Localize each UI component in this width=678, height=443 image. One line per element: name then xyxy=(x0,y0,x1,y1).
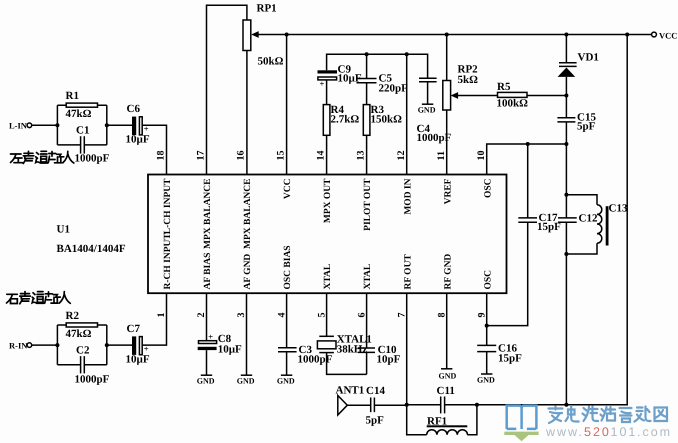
svg-text:MOD IN: MOD IN xyxy=(403,178,413,214)
node rail RP2 xyxy=(445,33,449,37)
inductor RF1 loop xyxy=(407,405,477,435)
wire C8 to ground xyxy=(206,350,208,375)
svg-text:L-IN: L-IN xyxy=(9,121,28,131)
wire pin 15 to rail xyxy=(286,35,288,175)
wire C17 branch upper xyxy=(527,144,529,218)
node rail pin15 xyxy=(285,33,289,37)
tank circuit top node xyxy=(564,193,568,197)
capacitor C7 10uF electrolytic xyxy=(132,336,136,355)
wire tank bottom branch xyxy=(566,243,597,254)
svg-text:OSC: OSC xyxy=(483,270,493,290)
wire crystal loop to pin 6 xyxy=(327,353,367,375)
svg-text:220pF: 220pF xyxy=(379,83,409,95)
svg-text:+: + xyxy=(208,331,213,341)
svg-text:XTAL: XTAL xyxy=(323,264,333,290)
svg-text:5: 5 xyxy=(316,313,327,318)
svg-text:MPX BALANCE: MPX BALANCE xyxy=(243,179,253,249)
svg-text:10: 10 xyxy=(476,151,487,161)
svg-text:5pF: 5pF xyxy=(366,415,385,427)
svg-text:C11: C11 xyxy=(437,385,455,397)
svg-text:C7: C7 xyxy=(127,323,141,335)
wire node to C11 xyxy=(407,404,441,406)
svg-text:OSC BIAS: OSC BIAS xyxy=(283,245,293,289)
RP2 wiper arrow xyxy=(451,92,459,99)
svg-text:6: 6 xyxy=(356,313,367,318)
wire C6 to pin 18 xyxy=(142,125,166,174)
node L out junction xyxy=(105,123,109,127)
wire antenna to C14 xyxy=(347,404,370,406)
node L-IN junction xyxy=(55,123,59,127)
svg-text:520: 520 xyxy=(584,425,611,439)
wire C11 to right node xyxy=(445,404,477,406)
inductor C13 coil xyxy=(597,205,602,243)
node bottom rail tank column xyxy=(564,403,568,407)
svg-text:GND: GND xyxy=(197,377,215,386)
capacitor C4 xyxy=(419,78,437,82)
svg-text:AF BIAS: AF BIAS xyxy=(203,253,213,290)
node rail C5 xyxy=(365,52,369,56)
svg-text:RF GND: RF GND xyxy=(443,254,453,290)
wire C10 to loop xyxy=(366,352,368,374)
wire pin 4 to C3 xyxy=(286,293,288,348)
inductor C13 core xyxy=(606,206,609,245)
wire C12 leads xyxy=(565,195,567,254)
wire L input loop xyxy=(57,105,106,145)
capacitor C15 xyxy=(557,118,575,122)
svg-text:47kΩ: 47kΩ xyxy=(66,108,92,120)
svg-text:2.7kΩ: 2.7kΩ xyxy=(331,114,360,126)
svg-text:15pF: 15pF xyxy=(498,353,522,365)
capacitor C1 xyxy=(81,136,85,153)
capacitor C9 10uF electrolytic xyxy=(318,70,338,73)
node rail pin12 xyxy=(405,52,409,56)
wire node to C7 xyxy=(107,344,132,346)
svg-text:100kΩ: 100kΩ xyxy=(497,98,529,110)
node osc line C17 xyxy=(526,142,530,146)
svg-text:GND: GND xyxy=(439,372,457,381)
VCC top rail xyxy=(257,34,652,36)
svg-text:150kΩ: 150kΩ xyxy=(371,114,403,126)
svg-text:C13: C13 xyxy=(609,203,628,215)
svg-text:3: 3 xyxy=(236,313,247,318)
svg-text:GND: GND xyxy=(418,106,436,115)
node pin 9 junction xyxy=(485,324,489,328)
capacitor C6 10uF electrolytic xyxy=(132,117,136,136)
resistor R4 xyxy=(323,105,330,136)
RP1 wiper arrow xyxy=(251,31,259,38)
svg-text:10pF: 10pF xyxy=(377,354,401,366)
wire C4 to ground xyxy=(427,82,429,105)
svg-text:1000pF: 1000pF xyxy=(298,354,333,366)
svg-text:VREF: VREF xyxy=(443,178,453,204)
capacitor C17 xyxy=(518,218,537,222)
wire C15 down to tank xyxy=(565,122,567,195)
svg-text:C14: C14 xyxy=(366,385,385,397)
wire pin 2 to C8 xyxy=(206,293,208,341)
svg-text:C6: C6 xyxy=(127,103,141,115)
right edge wire VCC to bottom xyxy=(625,33,629,37)
svg-text:1: 1 xyxy=(156,313,167,318)
wire C5 to R3 xyxy=(366,83,368,105)
wire pin 10 to osc net xyxy=(487,144,567,175)
wire tank top branch xyxy=(566,195,597,205)
capacitor C16 xyxy=(477,345,496,351)
右声道输入 caption (right channel input) xyxy=(7,292,71,304)
svg-text:15: 15 xyxy=(276,151,287,161)
IC U1 BA1404 body xyxy=(148,175,507,294)
watermark text 家电维修资料网 xyxy=(549,406,668,423)
wire RP2 bottom to pin 11 xyxy=(446,110,448,175)
capacitor C12 xyxy=(558,218,577,222)
ground pin 4 xyxy=(281,374,292,376)
resistor R5 xyxy=(498,92,528,97)
svg-text:GND: GND xyxy=(477,376,495,385)
svg-text:5pF: 5pF xyxy=(577,121,596,133)
antenna ANT1 xyxy=(338,396,348,416)
svg-text:+: + xyxy=(320,79,325,89)
wire RP1 bottom to pin 16 xyxy=(246,51,248,175)
svg-text:PILOT OUT: PILOT OUT xyxy=(363,178,373,231)
svg-text:VCC: VCC xyxy=(283,178,293,199)
watermark book base xyxy=(504,432,538,442)
svg-text:17: 17 xyxy=(196,151,207,161)
svg-text:www.: www. xyxy=(545,425,584,439)
inductor RF1 coil xyxy=(427,430,468,435)
varicap diode VD1 xyxy=(565,35,567,63)
resistor R3 xyxy=(363,105,370,136)
svg-text:11: 11 xyxy=(436,151,447,160)
wire pin 3 to ground xyxy=(246,293,248,375)
svg-text:5kΩ: 5kΩ xyxy=(458,74,479,86)
svg-text:R1: R1 xyxy=(66,90,79,102)
svg-text:MPX OUT: MPX OUT xyxy=(323,178,333,223)
node R out junction xyxy=(105,343,109,347)
resistor R1 xyxy=(66,103,97,107)
node rail VD1 xyxy=(564,33,568,37)
wire C9 to R4 xyxy=(326,80,328,105)
wire pin 7 to RF node xyxy=(406,293,408,405)
svg-text:16: 16 xyxy=(236,151,247,161)
wire RP2 wiper to R5 xyxy=(457,95,498,97)
wire pin 8 to ground xyxy=(446,293,448,369)
svg-text:R2: R2 xyxy=(66,310,80,322)
svg-text:ANT1: ANT1 xyxy=(336,385,365,397)
wire pin 17 up and over to RP1 top xyxy=(207,5,247,174)
watermark url www.520101.com xyxy=(545,425,672,439)
ground pin 2 xyxy=(201,374,212,376)
svg-text:VCC: VCC xyxy=(659,31,677,41)
wire node to C6 xyxy=(107,124,132,126)
wire C17 branch lower to pin 9 xyxy=(487,222,528,325)
ground C16 xyxy=(481,373,492,375)
L-IN terminal xyxy=(27,123,32,128)
ground pin 8 xyxy=(441,368,452,370)
svg-text:U1: U1 xyxy=(57,224,70,236)
svg-text:12: 12 xyxy=(396,151,407,161)
wire L-IN to node xyxy=(32,124,58,126)
wire pin 12 to rail xyxy=(406,54,408,174)
wire rail to RP2 xyxy=(446,35,448,81)
wire C3 to ground xyxy=(286,352,288,376)
svg-text:R-IN: R-IN xyxy=(9,341,28,351)
svg-text:10µF: 10µF xyxy=(126,134,150,146)
svg-text:R-CH INPUT: R-CH INPUT xyxy=(163,233,173,290)
VCC terminal xyxy=(652,32,657,37)
capacitor C10 xyxy=(358,348,375,352)
ground C4 xyxy=(422,103,433,105)
svg-text:MPX BALANCE: MPX BALANCE xyxy=(203,179,213,249)
svg-text:C2: C2 xyxy=(76,344,90,356)
wire tank to bottom rail xyxy=(565,254,567,405)
svg-text:R5: R5 xyxy=(497,81,511,93)
svg-text:XTAL: XTAL xyxy=(363,264,373,290)
svg-text:C12: C12 xyxy=(579,213,598,225)
node tank bottom xyxy=(564,252,568,256)
wire C16 to ground xyxy=(486,352,488,374)
node VD1 R5 junction xyxy=(564,94,568,98)
svg-text:2: 2 xyxy=(196,313,207,318)
capacitor C3 xyxy=(278,348,297,352)
wire R-IN to node xyxy=(32,344,58,346)
watermark book icon xyxy=(507,406,537,429)
capacitor C5 xyxy=(357,79,377,83)
svg-text:10µF: 10µF xyxy=(218,344,242,356)
node C15 osc line junction xyxy=(564,142,568,146)
svg-text:C1: C1 xyxy=(76,125,89,137)
左声道输入 caption (left channel input) xyxy=(11,151,74,163)
potentiometer RP2 body xyxy=(443,81,451,111)
wire R4 to pin 14 xyxy=(326,135,328,174)
svg-text:14: 14 xyxy=(316,151,327,161)
ground pin 3 xyxy=(241,374,252,376)
svg-text:101: 101 xyxy=(611,425,638,439)
capacitor C14 xyxy=(371,398,375,413)
wire pin 9 lead xyxy=(486,293,488,345)
svg-text:OSC: OSC xyxy=(483,178,493,198)
svg-text:RP1: RP1 xyxy=(257,3,277,15)
wire pin 5 to crystal xyxy=(326,293,328,336)
wire C7 to pin 1 xyxy=(142,293,166,345)
svg-text:VD1: VD1 xyxy=(578,52,599,64)
svg-text:8: 8 xyxy=(436,313,447,318)
svg-text:.com: .com xyxy=(637,425,672,439)
svg-text:GND: GND xyxy=(277,377,295,386)
capacitor C2 xyxy=(81,356,85,373)
svg-text:9: 9 xyxy=(476,313,487,318)
svg-text:1000pF: 1000pF xyxy=(75,153,110,165)
wire pin 6 to C10 xyxy=(366,293,368,348)
svg-text:10µF: 10µF xyxy=(126,354,150,366)
inductor RF1 core bar xyxy=(427,425,468,427)
node RF left xyxy=(405,403,409,407)
svg-text:1000pF: 1000pF xyxy=(75,374,110,386)
resistor R2 xyxy=(66,323,97,327)
wire R3 to pin 13 xyxy=(366,135,368,174)
crystal XTAL1 38kHz xyxy=(319,335,334,337)
svg-text:15pF: 15pF xyxy=(537,221,561,233)
svg-text:13: 13 xyxy=(356,151,367,161)
node RF right xyxy=(475,403,479,407)
potentiometer RP1 body xyxy=(243,20,251,51)
node R-IN junction xyxy=(55,343,59,347)
svg-text:50kΩ: 50kΩ xyxy=(258,56,284,68)
svg-text:GND: GND xyxy=(237,377,255,386)
svg-text:38kHz: 38kHz xyxy=(337,344,368,356)
svg-text:AF GND: AF GND xyxy=(243,254,253,290)
R-IN terminal xyxy=(27,343,32,348)
svg-text:BA1404/1404F: BA1404/1404F xyxy=(57,243,126,255)
wire C14 to pin 7 node xyxy=(374,404,406,406)
svg-text:4: 4 xyxy=(276,313,287,318)
wire VD1 to R5 node xyxy=(565,77,567,118)
wire R input loop xyxy=(57,325,106,365)
svg-text:RF OUT: RF OUT xyxy=(403,254,413,290)
wire R5 to VD1 net xyxy=(527,95,566,97)
svg-text:7: 7 xyxy=(396,313,407,318)
svg-text:L-CH INPUT: L-CH INPUT xyxy=(163,178,173,234)
bias rail (pin 12 net) xyxy=(327,54,428,78)
capacitor C11 xyxy=(441,397,445,414)
svg-text:18: 18 xyxy=(156,151,167,161)
svg-text:47kΩ: 47kΩ xyxy=(66,328,92,340)
